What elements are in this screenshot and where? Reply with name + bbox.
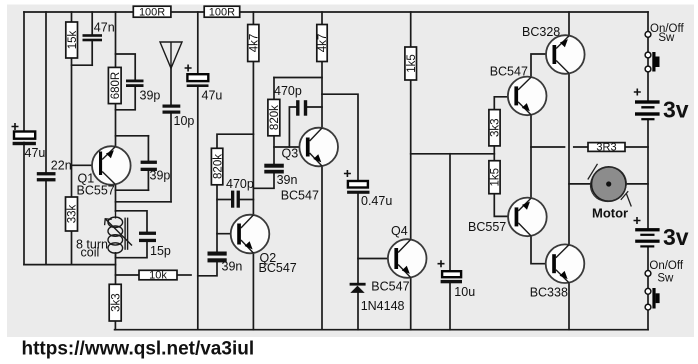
wire 0.47u to diode column xyxy=(357,194,359,283)
svg-text:39p: 39p xyxy=(140,89,161,103)
resistor 820k (upper) xyxy=(268,99,281,135)
wire Q3 collector column xyxy=(321,62,323,128)
transistor Q3 BC547 xyxy=(281,128,338,203)
svg-text:https://www.qsl.net/va3iul: https://www.qsl.net/va3iul xyxy=(22,339,255,360)
antenna xyxy=(160,42,182,68)
wire 820k3 bottom column xyxy=(273,136,275,164)
svg-text:33k: 33k xyxy=(67,204,79,223)
wire 3k3 bottom stub xyxy=(114,321,116,330)
capacitor 10p xyxy=(163,105,195,128)
wire switch2 links xyxy=(647,277,649,289)
wire BC547c collector to BC328 base jog xyxy=(531,54,553,77)
wire 4k7a column xyxy=(252,12,254,25)
wire 10k right xyxy=(177,274,191,276)
capacitor 15p xyxy=(139,232,171,258)
wire BC338 emitter column xyxy=(568,283,570,330)
svg-text:39n: 39n xyxy=(277,173,298,187)
resistor 4k7 (right) xyxy=(317,25,329,62)
svg-text:470p: 470p xyxy=(226,177,254,191)
capacitor 39n (lower-left) xyxy=(208,252,243,274)
svg-text:BC547: BC547 xyxy=(259,261,297,275)
wire Q1 top node horizontal xyxy=(116,135,149,137)
svg-text:BC338: BC338 xyxy=(530,285,568,299)
transistor Q4 BC547 xyxy=(371,224,426,294)
wire 820k3 to collector jog xyxy=(274,77,322,79)
wire left border column xyxy=(23,12,25,265)
capacitor 470p (lower) xyxy=(226,177,254,208)
wire 39p1 bottom jog xyxy=(116,87,136,110)
resistor 1k5 (right) xyxy=(489,161,502,194)
wire 470p2 right xyxy=(240,199,253,201)
svg-text:3v: 3v xyxy=(663,97,689,123)
wire 0.47u top jog xyxy=(322,94,358,180)
capacitor 47n xyxy=(83,20,115,41)
wire 39n2 bottom jog xyxy=(253,174,274,189)
svg-text:10u: 10u xyxy=(454,285,475,299)
wire 680R column xyxy=(115,12,117,147)
resistor 100R (right) xyxy=(204,6,240,18)
resistor 820k (lower) xyxy=(211,148,224,185)
wire BC328 bus top xyxy=(568,12,570,36)
wire Q3 base xyxy=(274,146,306,148)
wire 1k5a column xyxy=(410,12,412,47)
capacitor 22n xyxy=(37,158,72,181)
transistor BC557 (right) xyxy=(468,198,547,237)
wire 4k7b column xyxy=(321,12,323,25)
svg-text:820k: 820k xyxy=(212,154,224,179)
wire jog 15k-47n junction xyxy=(72,64,93,66)
svg-text:47n: 47n xyxy=(94,20,115,34)
svg-text:On/Off: On/Off xyxy=(649,260,683,272)
wire antenna column xyxy=(170,68,172,104)
capacitor 470p (upper) xyxy=(274,84,307,116)
svg-text:BC557: BC557 xyxy=(77,183,115,197)
svg-text:15k: 15k xyxy=(67,30,79,49)
wire 47n column xyxy=(91,12,93,65)
wire bias row xyxy=(411,153,495,155)
svg-text:Q4: Q4 xyxy=(391,224,408,238)
wire coil bottom to 3k3 xyxy=(115,253,117,284)
switch On/Off (bottom) xyxy=(645,260,684,310)
svg-text:1k5: 1k5 xyxy=(406,54,418,73)
svg-text:39p: 39p xyxy=(150,169,171,183)
svg-text:0.47u: 0.47u xyxy=(361,194,392,208)
wire Q4 base xyxy=(358,258,395,260)
resistor 33k xyxy=(66,197,79,231)
wire 3R3 left (hops bus) xyxy=(531,146,565,148)
wire battery2 to switch2 xyxy=(647,248,649,271)
transistor BC547 (right top) xyxy=(490,64,547,115)
svg-text:3v: 3v xyxy=(663,224,689,250)
capacitor 0.47u electrolytic xyxy=(344,170,392,208)
wire top rail xyxy=(24,11,648,13)
wire BC557b collector to BC338 base jog xyxy=(531,236,552,264)
wire 470p1 right xyxy=(307,106,322,108)
capacitor 47u (left electrolytic) xyxy=(12,123,46,160)
resistor 4k7 (left) xyxy=(248,25,261,62)
wire Q2 base xyxy=(217,233,238,235)
wire 820k2 bottom column xyxy=(216,185,218,252)
wire BC547c emitter column xyxy=(530,115,532,198)
svg-text:47u: 47u xyxy=(202,89,223,103)
resistor 1k5 (middle) xyxy=(405,47,418,80)
capacitor 39p (across Q1) xyxy=(141,161,171,183)
resistor 3k3 (right) xyxy=(489,110,502,146)
wire 1k5b to BC557 base jog xyxy=(494,194,515,217)
wire Q2 emitter column xyxy=(252,253,254,330)
wire 3k3b top jog xyxy=(494,97,514,110)
transistor Q2 BC547 xyxy=(231,215,297,276)
svg-text:BC328: BC328 xyxy=(522,25,560,39)
resistor 3k3 (left) xyxy=(109,284,122,321)
resistor 15k xyxy=(66,22,79,58)
svg-text:10k: 10k xyxy=(149,270,167,282)
svg-text:470p: 470p xyxy=(274,84,302,98)
wire 47u2 bus lower xyxy=(197,87,199,330)
svg-text:39n: 39n xyxy=(222,259,243,273)
wire switch2 to bottom rail xyxy=(647,310,649,329)
wire 10u column xyxy=(449,154,451,270)
wire Q3 emitter column xyxy=(321,166,323,329)
svg-text:1k5: 1k5 xyxy=(490,168,502,187)
capacitor 10u electrolytic xyxy=(438,260,476,299)
resistor 100R (left) xyxy=(133,6,171,18)
svg-text:22n: 22n xyxy=(51,158,72,172)
svg-text:BC557: BC557 xyxy=(468,220,506,234)
wire 3R3 right xyxy=(625,146,648,148)
wire Q4 collector column xyxy=(410,80,412,240)
wire antenna node horizontal xyxy=(116,201,172,203)
svg-text:3k3: 3k3 xyxy=(490,118,502,137)
wire 39n1 bottom jog xyxy=(198,263,217,276)
svg-text:1N4148: 1N4148 xyxy=(361,299,405,313)
transistor Q1 BC557 xyxy=(77,146,131,197)
svg-text:10p: 10p xyxy=(174,114,195,128)
svg-text:BC547: BC547 xyxy=(490,64,528,78)
wire 470p1 left jog xyxy=(289,107,296,147)
svg-text:3R3: 3R3 xyxy=(596,141,616,153)
wire BC328 collector bus xyxy=(568,73,570,244)
wire diode bottom stub xyxy=(357,293,359,330)
wire battery1 to battery2 xyxy=(647,120,649,228)
wire motor right xyxy=(626,183,648,185)
wire 22n column xyxy=(45,12,47,265)
svg-text:820k: 820k xyxy=(269,105,281,130)
diode 1N4148 xyxy=(350,283,405,313)
wire bottom rail xyxy=(115,329,648,331)
wire switch1 links xyxy=(647,38,649,52)
battery 3v (bottom) xyxy=(634,217,689,250)
capacitor 39p (top, across 680R) xyxy=(126,80,160,103)
wire motor left xyxy=(569,183,592,185)
resistor 3R3 xyxy=(588,141,625,153)
wire Q4 emitter column xyxy=(410,278,412,330)
svg-text:15p: 15p xyxy=(150,244,171,258)
wire 39p2 top stub xyxy=(147,136,149,161)
svg-text:100R: 100R xyxy=(139,7,165,19)
svg-text:47u: 47u xyxy=(25,146,46,160)
motor M1 xyxy=(584,161,632,220)
wire 3k3b-1k5b link xyxy=(493,146,495,161)
svg-text:4k7: 4k7 xyxy=(317,34,329,53)
wire 15k column xyxy=(71,12,73,265)
svg-text:3k3: 3k3 xyxy=(110,293,122,312)
wire Q1 collector / coil column xyxy=(115,184,117,211)
wire left bottom horizontal xyxy=(24,264,116,266)
wire 10p bottom column xyxy=(170,114,172,202)
svg-text:Q3: Q3 xyxy=(282,146,299,160)
svg-text:680R: 680R xyxy=(110,72,122,100)
capacitor 47u (right electrolytic) xyxy=(185,65,223,103)
transistor BC328 xyxy=(522,25,585,74)
wire 15p bottom jog xyxy=(116,242,148,258)
wire 10u bottom stub xyxy=(449,283,451,329)
wire 47u2 bus column xyxy=(197,12,199,73)
wire right column top xyxy=(647,12,649,31)
switch On/Off (top) xyxy=(645,23,684,72)
wire 39p2 bottom stub xyxy=(147,171,149,190)
wire 39p1 top jog xyxy=(116,54,136,80)
wire Q1 base xyxy=(72,164,100,166)
svg-text:Motor: Motor xyxy=(592,205,628,220)
wire 10k left xyxy=(116,274,140,276)
wire 820k3 top column xyxy=(273,78,275,100)
svg-text:4k7: 4k7 xyxy=(249,34,261,53)
transistor BC338 xyxy=(530,244,585,299)
svg-text:BC547: BC547 xyxy=(371,280,409,294)
resistor 10k xyxy=(139,270,177,282)
wire 820k2 top jog xyxy=(217,134,253,148)
wire 470p2 left xyxy=(217,199,231,201)
wire coil top to 15p xyxy=(116,211,148,232)
coil 8-turn with core xyxy=(105,211,132,258)
svg-text:100R: 100R xyxy=(209,7,235,19)
svg-text:coil: coil xyxy=(81,246,100,260)
battery 3v (top) xyxy=(634,89,689,123)
svg-text:Sw: Sw xyxy=(658,32,675,44)
wire collector node horizontal xyxy=(116,189,149,191)
wire switch1 to battery1 xyxy=(647,72,649,100)
capacitor 39n (at Q3 base) xyxy=(264,164,297,187)
resistor 680R xyxy=(108,67,121,103)
svg-text:BC547: BC547 xyxy=(281,189,319,203)
wire Q2 collector column xyxy=(252,62,254,215)
svg-text:Sw: Sw xyxy=(657,272,674,284)
